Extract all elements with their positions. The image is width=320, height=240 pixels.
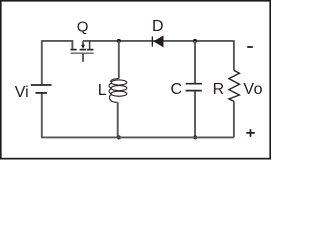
- svg-text:Vo: Vo: [243, 81, 263, 98]
- output minus sign: [247, 46, 253, 48]
- wire: battery bottom plate down to bottom rail: [41, 94, 43, 138]
- inductor L coil: [109, 79, 127, 103]
- capacitor C top plate: [186, 83, 202, 85]
- svg-text:Vi: Vi: [15, 84, 29, 101]
- wire: L bottom lead: [117, 102, 119, 137]
- battery Vi bottom plate (short): [36, 92, 48, 94]
- transistor Q: right stub (source): [89, 41, 91, 49]
- transistor Q: middle stub: [82, 41, 84, 45]
- transistor Q: gate lead: [82, 53, 84, 62]
- diode D triangle: [153, 35, 163, 47]
- node: C bottom junction dot: [193, 135, 197, 139]
- capacitor C bottom plate: [186, 90, 202, 92]
- frame border: [1, 1, 271, 159]
- wire: top rail left segment to Q drain: [41, 41, 72, 49]
- transistor Q: right contact bar: [87, 49, 93, 51]
- diode D cathode bar: [152, 36, 153, 46]
- bottom rail wire: [41, 136, 234, 138]
- svg-text:D: D: [152, 18, 164, 35]
- wire: right vertical bottom (resistor to bottom rail): [233, 101, 235, 137]
- svg-text:R: R: [213, 81, 225, 98]
- transistor Q: gate line: [71, 52, 94, 54]
- battery Vi top plate (long): [31, 84, 52, 86]
- transistor Q: middle contact bar: [80, 49, 87, 51]
- wire: right vertical top (corner to resistor): [233, 40, 235, 70]
- svg-text:C: C: [171, 81, 183, 98]
- svg-text:L: L: [98, 82, 107, 99]
- wire: C bottom lead: [194, 91, 196, 137]
- wire: left vertical from top rail to battery top plate: [41, 41, 43, 84]
- wire: L top lead: [118, 41, 120, 79]
- transistor Q: left contact bar: [70, 49, 76, 51]
- output plus sign: [246, 129, 254, 137]
- transistor Q: arrow (body) pointing down: [81, 45, 85, 49]
- wire: C top lead: [194, 41, 196, 83]
- resistor R zigzag: [229, 70, 240, 101]
- wire: top rail right segment (Q source to top-right corner): [83, 40, 234, 42]
- svg-text:Q: Q: [77, 18, 89, 35]
- node: L bottom junction dot: [117, 135, 121, 139]
- node: C top junction dot: [193, 39, 197, 43]
- node: switch/L junction dot (top): [117, 39, 121, 43]
